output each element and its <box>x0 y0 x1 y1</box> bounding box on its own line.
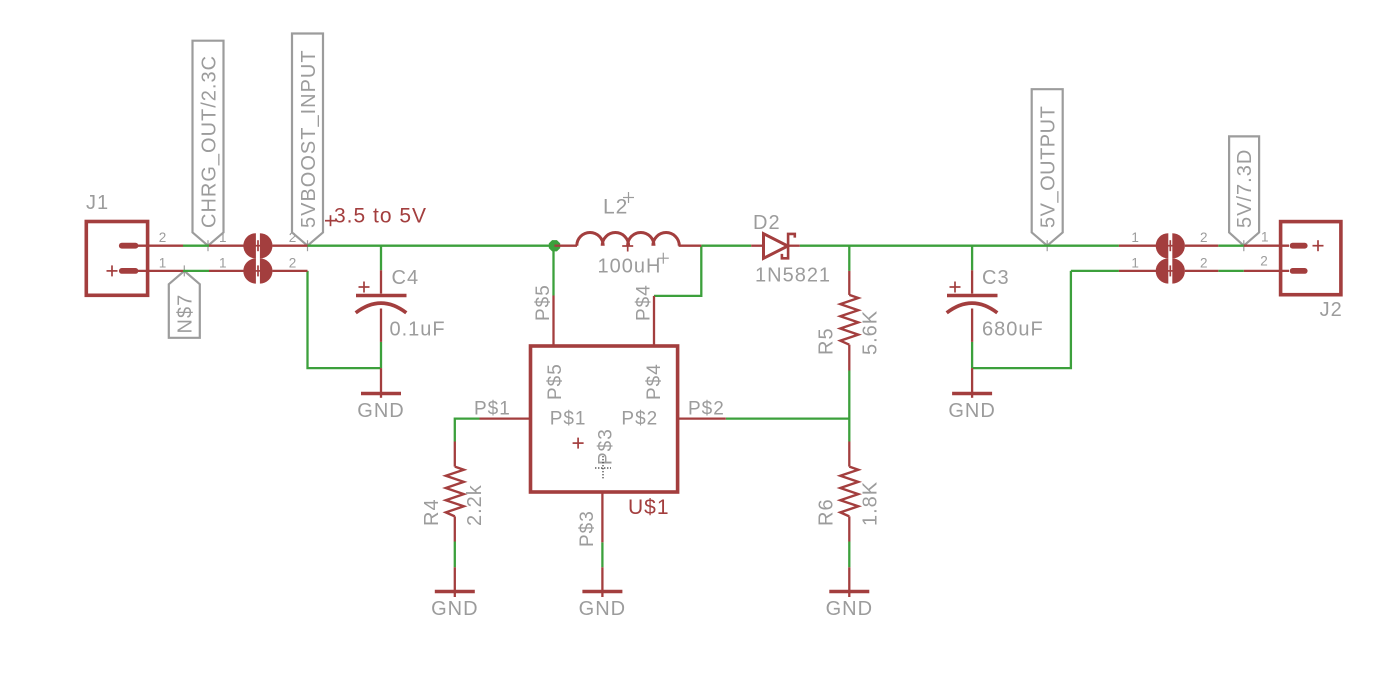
solder jumper SJ2 bottom <box>1119 258 1218 283</box>
solder jumper SJ1 top <box>209 233 308 258</box>
wire L2 right end down to U$1 P$4 pin <box>654 246 701 296</box>
svg-text:N$7: N$7 <box>175 294 197 334</box>
wire SJ2 to J2 pin2 bottom row <box>1218 270 1244 272</box>
resistor R4 <box>446 442 464 542</box>
wire U$1 P$3 to GND <box>601 542 603 567</box>
junction dot at U$1 P$5 tap <box>549 240 560 251</box>
svg-text:1: 1 <box>1131 230 1139 245</box>
svg-text:GND: GND <box>431 598 478 620</box>
svg-text:2: 2 <box>289 255 297 270</box>
svg-text:P$5: P$5 <box>545 363 566 400</box>
dotted crosshair at U$1 origin <box>595 456 611 480</box>
svg-text:1: 1 <box>159 255 167 270</box>
ground symbol under C3 <box>952 368 992 398</box>
wire J1 pin1 to SJ1 bottom row <box>183 270 209 272</box>
svg-text:P$1: P$1 <box>550 408 587 429</box>
resistor R5 <box>840 271 858 371</box>
svg-text:1N5821: 1N5821 <box>755 265 831 287</box>
ground symbol under R6 <box>829 567 869 597</box>
net flag N$7 <box>169 265 200 337</box>
svg-text:2: 2 <box>1260 254 1268 269</box>
wire SJ1 bottom row down to C4 gnd node <box>308 271 382 368</box>
svg-text:L2: L2 <box>603 196 628 219</box>
wire R4 bottom to GND <box>454 542 456 568</box>
svg-text:2.2k: 2.2k <box>464 484 486 526</box>
connector J1 <box>86 222 183 296</box>
svg-text:2: 2 <box>1200 255 1208 270</box>
wire R5 bottom to P$2 node and R6 top <box>848 371 850 442</box>
net flag CHRG_OUT/2.3C <box>193 41 224 252</box>
svg-text:P$2: P$2 <box>621 408 658 429</box>
svg-text:1: 1 <box>219 255 227 270</box>
100uH origin cross <box>658 253 669 264</box>
svg-text:GND: GND <box>579 598 626 620</box>
svg-text:CHRG_OUT/2.3C: CHRG_OUT/2.3C <box>198 55 220 228</box>
svg-text:1: 1 <box>1261 229 1269 244</box>
wire SJ2 bottom row down to C3 gnd node <box>972 271 1071 368</box>
svg-text:0.1uF: 0.1uF <box>390 319 446 341</box>
ground symbol under P$3 <box>582 567 622 597</box>
svg-text:1: 1 <box>1131 255 1139 270</box>
svg-text:GND: GND <box>826 598 873 620</box>
ground symbol under R4 <box>435 567 475 597</box>
svg-text:2: 2 <box>1200 230 1208 245</box>
wire U$1 P$2 to R5/R6 node <box>726 417 850 419</box>
svg-text:5V_OUTPUT: 5V_OUTPUT <box>1038 106 1060 228</box>
wire C4 top tap <box>380 246 382 271</box>
svg-text:2: 2 <box>289 230 297 245</box>
svg-text:1.8K: 1.8K <box>860 481 882 526</box>
annotation origin cross <box>325 220 336 222</box>
connector J2 <box>1244 222 1341 295</box>
net flag 5V/7.3D <box>1229 136 1259 251</box>
wire SJ2 bottom pin1 to corner <box>1071 270 1119 272</box>
svg-text:C4: C4 <box>392 267 420 289</box>
svg-text:GND: GND <box>948 400 995 422</box>
net flag 5V_OUTPUT <box>1032 89 1063 251</box>
solder jumper SJ1 bottom <box>209 258 308 283</box>
wire 5V rail D2 cathode to SJ2 <box>800 245 1119 247</box>
svg-text:5VBOOST_INPUT: 5VBOOST_INPUT <box>298 49 320 228</box>
svg-text:J2: J2 <box>1320 299 1343 321</box>
resistor R6 <box>840 442 858 542</box>
wire J1 pin2 to SJ1 top row <box>183 245 209 247</box>
svg-text:P$3: P$3 <box>596 428 617 465</box>
capacitor C3 <box>947 270 998 342</box>
wire SJ2 to J2 pin1 top row <box>1218 245 1244 247</box>
solder jumper SJ2 top <box>1119 233 1218 258</box>
svg-text:C3: C3 <box>982 267 1010 289</box>
svg-text:100uH: 100uH <box>598 256 662 278</box>
svg-text:P$2: P$2 <box>688 399 725 420</box>
capacitor C4 <box>356 270 407 342</box>
svg-text:5.6K: 5.6K <box>860 310 882 355</box>
wire 5VBOOST rail from flag to junction <box>308 245 555 247</box>
svg-text:GND: GND <box>357 400 404 422</box>
svg-text:R5: R5 <box>815 327 837 355</box>
svg-text:P$5: P$5 <box>533 284 554 321</box>
svg-text:P$3: P$3 <box>577 510 598 547</box>
svg-text:P$4: P$4 <box>644 363 665 400</box>
svg-text:680uF: 680uF <box>982 319 1044 341</box>
net flag 5VBOOST_INPUT <box>292 34 323 252</box>
svg-text:U$1: U$1 <box>628 496 670 519</box>
svg-text:2: 2 <box>159 230 167 245</box>
svg-text:P$1: P$1 <box>474 399 511 420</box>
wire junction down to U$1 P$5 pin <box>552 246 554 296</box>
wire C4 bottom lead to gnd node <box>380 342 382 368</box>
wire C3 top tap <box>971 246 973 271</box>
wire R5 top tap <box>848 246 850 271</box>
svg-text:3.5 to 5V: 3.5 to 5V <box>334 205 427 228</box>
svg-text:R6: R6 <box>815 498 837 526</box>
ground symbol under C4 <box>361 368 401 398</box>
svg-text:J1: J1 <box>86 192 109 214</box>
diode D2 1N5821 <box>751 234 800 259</box>
wire C3 bottom lead to gnd node <box>971 342 973 368</box>
L2 origin cross <box>623 192 634 203</box>
wire R6 bottom to GND <box>848 542 850 568</box>
wire L2 to D2 anode <box>701 245 751 247</box>
inductor L2 <box>554 232 701 251</box>
svg-text:P$4: P$4 <box>633 284 654 321</box>
wire U$1 P$1 corner to R4 top <box>455 419 480 442</box>
IC U$1 box <box>480 296 726 543</box>
svg-text:5V/7.3D: 5V/7.3D <box>1234 149 1256 228</box>
svg-text:D2: D2 <box>753 212 781 234</box>
svg-text:1: 1 <box>219 230 227 245</box>
svg-text:R4: R4 <box>421 498 443 526</box>
